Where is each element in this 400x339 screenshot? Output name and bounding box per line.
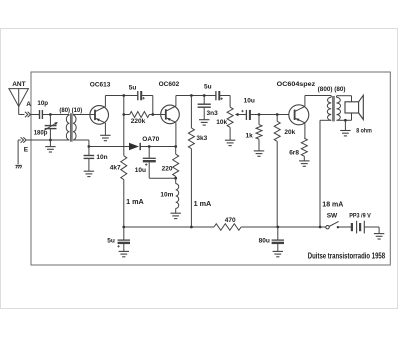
node dot 220k left bbox=[122, 113, 125, 116]
resistor 1k bbox=[256, 125, 262, 140]
svg-text:10u: 10u bbox=[244, 98, 255, 105]
svg-text:(80) (10): (80) (10) bbox=[59, 108, 82, 114]
wire bottom rail left bbox=[124, 226, 214, 228]
wire Q3 collector to T2 bbox=[305, 95, 331, 97]
wire E to ground node bbox=[26, 139, 69, 141]
wire Q1 emitter to ground bbox=[104, 123, 106, 135]
capacitor 5u rail bbox=[123, 227, 125, 240]
capacitor C 5u coupling 2 bbox=[215, 91, 217, 100]
svg-text:5u: 5u bbox=[129, 84, 137, 91]
node dot ground-net bbox=[49, 139, 52, 142]
svg-text:180p: 180p bbox=[34, 131, 48, 137]
svg-text:1 mA: 1 mA bbox=[194, 199, 212, 208]
capacitor 10p bbox=[39, 110, 41, 119]
wire Q2 collector riser bbox=[175, 96, 177, 107]
svg-text:220: 220 bbox=[162, 166, 173, 173]
wire switch to battery bbox=[338, 226, 352, 228]
wire 5u to Q2 base corner bbox=[141, 95, 152, 97]
svg-text:10k: 10k bbox=[216, 119, 227, 126]
node dot A-net bbox=[49, 113, 52, 116]
ground at 6r8 bbox=[299, 160, 309, 162]
resistor 220k bbox=[130, 112, 150, 118]
svg-text:10p: 10p bbox=[37, 100, 48, 107]
resistor 4k7 bbox=[121, 156, 127, 180]
transformer T2 secondary winding bbox=[337, 97, 341, 120]
node dot collector net bbox=[122, 94, 125, 97]
svg-text:6r8: 6r8 bbox=[289, 150, 299, 157]
node dot Q2 emitter net bbox=[174, 145, 177, 148]
capacitor 10u detector bbox=[148, 147, 150, 158]
switch SW bbox=[326, 226, 329, 229]
svg-text:18 mA: 18 mA bbox=[322, 202, 343, 209]
ground at pot bbox=[225, 139, 235, 141]
transformer T1 core bbox=[70, 113, 72, 141]
node dot 3k3 top bbox=[190, 94, 193, 97]
node dot rail 20k bbox=[276, 226, 279, 229]
svg-text:3n3: 3n3 bbox=[207, 110, 219, 117]
wire Q1 collector riser bbox=[104, 96, 106, 107]
transformer T1 primary winding bbox=[66, 115, 69, 140]
transistor Q3 OC604spez bbox=[289, 105, 309, 125]
node dot 1k top bbox=[258, 113, 261, 116]
wire riser collector net down bbox=[123, 96, 125, 156]
connector plug E bbox=[21, 137, 27, 142]
plus mark 5u second bbox=[221, 98, 223, 100]
wire diode cathode line bbox=[140, 146, 176, 148]
svg-text:10n: 10n bbox=[96, 154, 107, 161]
svg-text:20k: 20k bbox=[284, 129, 295, 136]
plus mark 10u detector bbox=[145, 164, 147, 166]
schematic border bbox=[31, 72, 390, 265]
svg-text:OC613: OC613 bbox=[90, 82, 111, 89]
node dot rail 3k3 bbox=[190, 226, 193, 229]
capacitor C 5u coupling 1 bbox=[137, 91, 139, 100]
node dot rail 4k7 bbox=[122, 226, 125, 229]
svg-text:E: E bbox=[24, 146, 29, 153]
svg-text:OC602: OC602 bbox=[159, 81, 180, 88]
ground at 10m bbox=[171, 212, 181, 214]
wire E terminal bbox=[18, 139, 21, 141]
pot wiper arrow bbox=[237, 114, 246, 116]
svg-text:1 mA: 1 mA bbox=[126, 197, 144, 206]
svg-text:OC604spez: OC604spez bbox=[277, 81, 316, 88]
node dot diode out bbox=[148, 145, 151, 148]
ground at 180p bbox=[49, 140, 51, 146]
resistor 3k3 bbox=[188, 128, 194, 149]
node dot 220 bottom bbox=[174, 177, 177, 180]
svg-text:8 ohm: 8 ohm bbox=[356, 128, 372, 135]
plus mark 5u first bbox=[142, 97, 144, 99]
wire base segment Q2 bbox=[153, 114, 166, 116]
svg-text:470: 470 bbox=[225, 217, 236, 224]
transformer T2 core bbox=[332, 96, 334, 121]
diode OA70 bbox=[129, 143, 139, 150]
node dot speaker ground bbox=[344, 119, 347, 122]
capacitor 10n bbox=[88, 147, 90, 156]
svg-text:5u: 5u bbox=[107, 238, 115, 245]
wire 4k7 to rail bbox=[123, 180, 125, 227]
capacitor 3n3 bbox=[203, 96, 205, 104]
resistor 470 bbox=[214, 224, 241, 231]
wire T2 primary bottom to rail bbox=[320, 119, 331, 121]
antenna ANT bbox=[9, 89, 29, 115]
ground at speaker bbox=[344, 120, 346, 130]
capacitor 10u coupling bbox=[245, 110, 247, 120]
svg-text:10m: 10m bbox=[160, 192, 173, 199]
svg-text:ANT: ANT bbox=[12, 81, 25, 88]
ground at 3n3 bbox=[199, 119, 209, 121]
wire top Q2 collector net bbox=[176, 95, 216, 97]
wire T2 secondary bottom to speaker bbox=[337, 119, 352, 121]
plus mark 5u rail bbox=[117, 245, 119, 247]
wire Q3 collector riser bbox=[304, 96, 306, 107]
wire bottom rail right bbox=[241, 226, 326, 228]
node dot 3n3 top bbox=[203, 94, 206, 97]
earth symbol bbox=[15, 164, 21, 166]
ground at 80u bbox=[273, 250, 283, 252]
inductor 10m bbox=[176, 184, 179, 209]
wire T1 secondary top to Q1 base bbox=[73, 114, 95, 116]
svg-text:80u: 80u bbox=[259, 238, 270, 245]
node dot 20k top bbox=[276, 113, 279, 116]
transistor Q1 OC613 bbox=[90, 106, 109, 125]
wire battery to ground bbox=[365, 226, 380, 228]
wire antenna to connector A bbox=[19, 114, 25, 116]
ground at 5u rail bbox=[119, 250, 129, 252]
node dot rail T2 bbox=[319, 226, 322, 229]
node dot detector-line bbox=[88, 145, 91, 148]
transistor Q2 OC602 bbox=[161, 105, 180, 124]
capacitor 80u bbox=[277, 227, 279, 240]
connector plug A bbox=[25, 112, 31, 117]
battery PP3 9V bbox=[351, 223, 353, 231]
ground at battery bbox=[374, 233, 384, 235]
resistor 220 bbox=[173, 154, 179, 176]
wire Q3 emitter drop bbox=[304, 123, 306, 138]
plus mark 10u coupling bbox=[241, 110, 243, 112]
svg-text:3k3: 3k3 bbox=[196, 135, 207, 142]
transformer T2 primary winding bbox=[327, 97, 331, 120]
resistor 6r8 bbox=[301, 138, 307, 156]
ground at Q1 emitter bbox=[100, 134, 110, 136]
svg-text:(800) (80): (800) (80) bbox=[318, 87, 346, 93]
svg-text:Duitse transistorradio 1958: Duitse transistorradio 1958 bbox=[308, 252, 386, 261]
resistor 20k bbox=[274, 121, 280, 141]
svg-text:10u: 10u bbox=[135, 167, 146, 174]
wire Q2 emitter drop bbox=[175, 122, 177, 146]
wire 5u2 to pot bbox=[220, 95, 231, 97]
wire T1 secondary bottom bbox=[73, 139, 89, 141]
wire A to C 10p bbox=[30, 114, 39, 116]
svg-text:A: A bbox=[26, 101, 31, 108]
speaker 8 ohm bbox=[345, 102, 359, 113]
node dot Q2 base bbox=[151, 113, 154, 116]
svg-text:1k: 1k bbox=[246, 133, 254, 140]
wire 10p to transformer bbox=[43, 114, 70, 116]
ground at 10n bbox=[84, 170, 94, 172]
transformer T1 secondary winding bbox=[73, 115, 76, 140]
svg-text:OA70: OA70 bbox=[142, 136, 159, 143]
svg-text:SW: SW bbox=[327, 213, 338, 220]
svg-text:4k7: 4k7 bbox=[110, 165, 121, 172]
svg-text:PP3 /9 V: PP3 /9 V bbox=[349, 213, 371, 220]
wire detector line left bbox=[89, 146, 129, 148]
svg-text:5u: 5u bbox=[204, 84, 212, 91]
wire 10u to Q3 base bbox=[250, 114, 289, 116]
svg-text:220k: 220k bbox=[131, 118, 146, 125]
wire top Q1 collector net bbox=[105, 95, 137, 97]
ground at 1k bbox=[254, 150, 264, 152]
potentiometer 10k bbox=[227, 107, 233, 127]
variable capacitor 180p bbox=[44, 115, 58, 141]
wire T2 secondary top to speaker bbox=[336, 96, 338, 98]
